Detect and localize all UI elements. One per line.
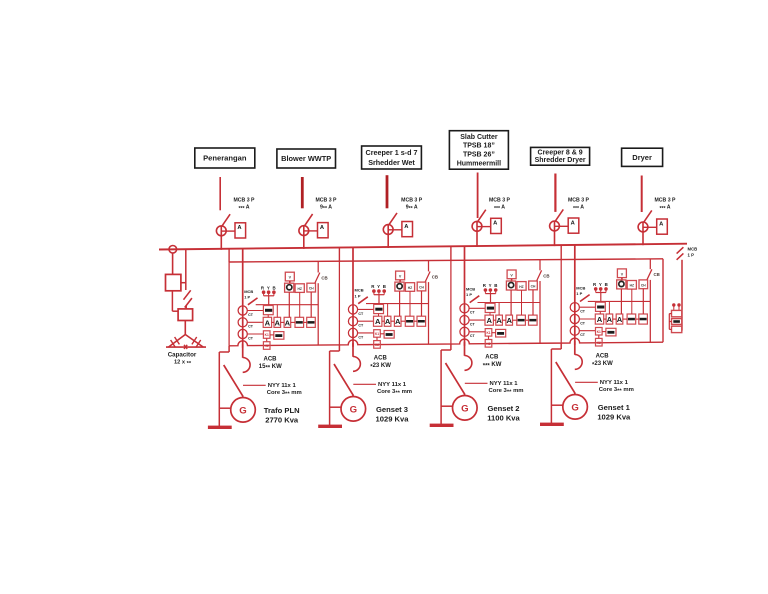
kWh meter (Genset 2 panel) [485, 303, 495, 312]
svg-text:NYY 11x 1: NYY 11x 1 [490, 381, 519, 387]
ammeter A (Dryer) [643, 219, 667, 234]
svg-text:NYY 11x 1: NYY 11x 1 [268, 383, 297, 389]
ACB rating label (Trafo PLN) [259, 356, 282, 371]
main busbar [159, 244, 687, 250]
generator G (Genset 2) [453, 370, 478, 420]
svg-text:15**​ KW: 15**​ KW [259, 364, 282, 372]
wire: metering rail (Trafo PLN panel) [256, 304, 319, 306]
breaker MCB 3P (Slab Cutter / TPSB / Hummeermill) [472, 210, 486, 232]
svg-text:CB: CB [654, 272, 660, 277]
wire: earth line to generator (Genset 3) [330, 406, 342, 408]
breaker MCB 3P (Dryer) [638, 210, 652, 232]
ammeter A (Penerangan) [221, 223, 245, 238]
kWh meter (Genset 1 panel) [596, 302, 606, 311]
wire: left earth branch (Genset 1) [551, 343, 561, 423]
svg-text:MCB: MCB [244, 289, 253, 294]
metering panel Trafo PLN: right edge with CB gap [317, 261, 319, 345]
svg-text:MCB: MCB [576, 286, 585, 291]
meter with bar (row3, Genset 1 panel) [602, 328, 616, 336]
MCB 3P rating label (Creeper 1 s-d 7 / Srhedder Wet) [401, 198, 423, 213]
svg-text:CH: CH [641, 283, 646, 287]
wire: rail drop to ammeter 2 (Genset 1 panel) [608, 301, 610, 314]
svg-text:***​ KW: ***​ KW [483, 362, 502, 370]
svg-text:G: G [461, 403, 468, 414]
svg-text:MCB 3 P: MCB 3 P [315, 198, 337, 204]
meter H2 (Genset 2 panel) [517, 282, 526, 291]
svg-text:***​ A: ***​ A [238, 205, 249, 213]
MCB 3P rating label (Blower WWTP) [315, 198, 337, 213]
svg-text:HZ: HZ [297, 287, 301, 291]
svg-text:K1: K1 [597, 330, 601, 334]
breaker MCB 3P (Blower WWTP) [299, 214, 313, 236]
generator G (Genset 1) [563, 369, 588, 419]
CT1 current transformer (Genset 3 panel) [348, 305, 364, 316]
svg-text:Blower WWTP: Blower WWTP [281, 154, 331, 163]
svg-text:A: A [496, 316, 502, 325]
svg-text:CB: CB [432, 274, 438, 279]
svg-text:V: V [289, 276, 292, 280]
svg-text:Creeper 8 & 9: Creeper 8 & 9 [538, 149, 583, 156]
breaker CB (Genset 3 panel) [425, 272, 438, 283]
wire: feeder drop from Creeper 8 & 9 / Shredder Dryer box [554, 174, 556, 212]
metering panel Genset 2: left edge [450, 260, 452, 344]
ammeter A (Creeper 1 s-d 7 / Srhedder Wet) [388, 222, 412, 237]
MCB 3P rating label (Slab Cutter / TPSB / Hummeermill) [489, 198, 511, 213]
svg-text:ACB: ACB [596, 353, 610, 359]
CT2 current transformer (Genset 1 panel) [570, 314, 586, 325]
wire: CT3 to relay K1 (Genset 1 panel) [579, 330, 595, 332]
svg-text:CB: CB [543, 273, 549, 278]
svg-text:CH: CH [309, 287, 314, 291]
svg-text:1 P: 1 P [466, 292, 472, 297]
svg-text:A: A [493, 221, 498, 227]
svg-text:MCB: MCB [355, 288, 364, 293]
wire: CT1 to kWh meter (Trafo PLN panel) [247, 310, 263, 312]
wire: panel left edge riser to bus (Genset 3) [338, 248, 340, 262]
svg-text:Penerangan: Penerangan [203, 154, 247, 163]
metering panel Trafo PLN: left edge [228, 262, 230, 346]
wire: Slab Cutter / TPSB / Hummeermill breaker to bus [476, 221, 478, 247]
relay K1 (Genset 1 panel) [596, 328, 603, 336]
svg-text:CB: CB [321, 276, 327, 281]
source name label (Genset 3) [376, 405, 410, 424]
kWh meter (Genset 3 panel) [374, 304, 384, 313]
svg-text:Trafo PLN: Trafo PLN [264, 406, 300, 415]
wire: Creeper 8 & 9 / Shredder Dryer breaker to bus [554, 221, 556, 247]
wire: left earth branch (Genset 2) [441, 344, 451, 424]
svg-text:K1: K1 [265, 333, 269, 337]
wire: panel left edge riser to bus (Genset 1) [560, 245, 562, 259]
wire: panel left edge riser to bus (Genset 2) [450, 246, 452, 260]
load label box: Penerangan [195, 148, 255, 168]
ammeter A (Creeper 8 & 9 / Shredder Dryer) [555, 218, 579, 233]
svg-text:A: A [385, 317, 391, 326]
svg-text:*​23 KW: *​23 KW [370, 363, 391, 371]
ACB rating label (Genset 3) [370, 355, 391, 370]
wire: bus node down to contactor [172, 253, 174, 274]
wire: CT3 to relay K1 (Genset 2 panel) [469, 331, 485, 333]
CT3 current transformer (Genset 1 panel) [570, 326, 586, 337]
svg-text:A: A [375, 317, 381, 326]
svg-text:CH: CH [419, 286, 424, 290]
wire: rail drop to ammeter 2 (Trafo PLN panel) [276, 305, 278, 318]
meter CH (Genset 3 panel) [417, 282, 426, 291]
svg-text:R Y B: R Y B [483, 283, 499, 288]
svg-text:A: A [395, 317, 401, 326]
wire: Dryer breaker to bus [642, 222, 644, 246]
svg-text:Slab Cutter: Slab Cutter [460, 134, 498, 141]
MCB 1P label (Genset 3 panel) [355, 288, 364, 299]
svg-text:1029 Kva: 1029 Kva [376, 414, 410, 423]
ammeter/meter row (Genset 2 panel) [485, 315, 537, 325]
wire: feeder drop from Penerangan box [219, 177, 221, 210]
voltmeter (Genset 3 panel) [395, 280, 404, 291]
breaker MCB 1P (Genset 2 panel) [470, 296, 480, 303]
wire: feeder drop from Dryer box [641, 176, 643, 213]
relay K1 (Genset 3 panel) [374, 330, 381, 338]
wire: feeder below panel (Genset 1) [574, 341, 576, 355]
svg-text:Hummeermill: Hummeermill [457, 160, 501, 167]
wire: box to capacitor delta [184, 321, 186, 335]
ground (Genset 3) [318, 425, 342, 428]
svg-text:K2: K2 [375, 343, 379, 347]
svg-text:A: A [237, 225, 242, 231]
kWh meter (Trafo PLN panel) [263, 306, 273, 315]
meter box 3 (right feeder) [672, 326, 682, 332]
relay K2 (Genset 3 panel) [374, 337, 381, 348]
breaker MCB 1P (Genset 1 panel) [580, 295, 590, 302]
voltmeter selector V (Trafo PLN panel) [285, 272, 294, 281]
wire: feeder riser bus to panel (Genset 1) [574, 245, 576, 260]
breaker CB (Genset 2 panel) [536, 270, 549, 281]
wire: voltmeter column (Genset 2 panel) [510, 290, 512, 315]
svg-text:Capacitor: Capacitor [168, 351, 197, 358]
wire: earth line to generator (Genset 1) [551, 404, 563, 406]
indicator lamps R Y B (Genset 3 panel) [371, 284, 387, 304]
breaker CB (Trafo PLN panel) [315, 273, 328, 284]
ammeter A (Slab Cutter / TPSB / Hummeermill) [477, 218, 501, 233]
svg-text:HZ: HZ [630, 284, 634, 288]
MCB 1P label (right feeder) [688, 247, 698, 258]
wire: contact to generator (Genset 2) [464, 394, 466, 396]
CT1 current transformer (Genset 2 panel) [460, 304, 476, 315]
svg-text:Genset 2: Genset 2 [487, 404, 519, 413]
metering panel Genset 2: right edge with CB gap [539, 260, 541, 344]
svg-text:***​ A: ***​ A [494, 205, 505, 213]
capacitor delta symbol [166, 335, 206, 350]
CT3 current transformer (Trafo PLN panel) [238, 329, 254, 340]
svg-text:1100 Kva: 1100 Kva [487, 413, 520, 422]
wire: kWh meter to ammeter row (Trafo PLN panel) [267, 315, 269, 318]
wire: metering rail (Genset 1 panel) [588, 300, 651, 302]
svg-text:1 P: 1 P [244, 294, 250, 299]
voltmeter (Genset 2 panel) [506, 279, 515, 290]
svg-text:CT: CT [470, 334, 476, 338]
wire: contact to generator (Trafo PLN) [242, 396, 244, 398]
svg-text:A: A [404, 224, 409, 230]
svg-text:ACB: ACB [485, 354, 499, 360]
MCB 1P label (Trafo PLN panel) [244, 289, 253, 300]
CT3 current transformer (Genset 2 panel) [460, 327, 476, 338]
svg-text:K1: K1 [486, 331, 490, 335]
wire: panel left edge riser to bus (Trafo PLN) [228, 249, 230, 262]
wire: CT1 to kWh meter (Genset 1 panel) [579, 306, 595, 308]
ACB blade (Genset 3) [334, 364, 353, 396]
svg-text:R Y B: R Y B [593, 282, 609, 287]
svg-text:1029 Kva: 1029 Kva [597, 412, 631, 421]
source name label (Trafo PLN) [264, 406, 300, 425]
voltmeter selector V (Genset 3 panel) [396, 271, 405, 280]
wire: CH column (Genset 2 panel) [532, 290, 534, 315]
wire: feeder through panel (Genset 1) [574, 259, 576, 345]
ACB drawout contact (Genset 2) [465, 356, 472, 371]
svg-text:K2: K2 [486, 342, 490, 346]
svg-text:1 P: 1 P [688, 252, 695, 257]
wire: CT3 to relay K1 (Trafo PLN panel) [247, 333, 263, 335]
voltmeter (Genset 1 panel) [617, 278, 626, 289]
wire: rail drop to ammeter 2 (Genset 2 panel) [498, 303, 500, 316]
ACB rating label (Genset 2) [483, 354, 502, 369]
wire: feeder riser bus to panel (Genset 3) [352, 247, 354, 261]
wire: contactor bottom to capacitor bank [172, 291, 178, 311]
svg-text:Core 3**​ mm: Core 3**​ mm [267, 390, 302, 398]
cable label NYY (Genset 1) [575, 380, 634, 395]
contactor box (capacitor feeder) [166, 274, 181, 290]
svg-text:R Y B: R Y B [261, 285, 277, 290]
wire: voltmeter column (Genset 3 panel) [399, 291, 401, 316]
capacitor label [168, 351, 197, 367]
load label box: Dryer [622, 148, 663, 166]
svg-text:CT: CT [580, 333, 586, 337]
wire: right feeder drop [681, 260, 683, 331]
wire: earth line to generator (Trafo PLN) [219, 407, 231, 409]
MCB 3P rating label (Penerangan) [233, 198, 255, 213]
svg-text:1 P: 1 P [355, 293, 361, 298]
svg-text:CH: CH [531, 284, 536, 288]
ACB drawout contact (Trafo PLN) [243, 358, 250, 373]
wire: feeder riser bus to panel (Genset 2) [464, 246, 466, 260]
svg-text:A: A [486, 316, 492, 325]
svg-text:CT: CT [248, 325, 254, 329]
relay K2 (Genset 2 panel) [485, 336, 492, 347]
wire: voltmeter column (Genset 1 panel) [620, 289, 622, 314]
CT3 current transformer (Genset 3 panel) [348, 328, 364, 339]
svg-text:A: A [285, 318, 291, 327]
wire: Blower WWTP breaker to bus [303, 225, 305, 249]
breaker MCB 1P (Trafo PLN panel) [248, 298, 258, 305]
svg-text:CT: CT [470, 323, 476, 327]
wire: CH column (Trafo PLN panel) [310, 292, 312, 317]
meter with bar (row3, Trafo PLN panel) [270, 332, 284, 340]
meter with bar (row3, Genset 2 panel) [492, 329, 506, 337]
wire: H2 column (Genset 3 panel) [409, 291, 411, 316]
relay K2 (Genset 1 panel) [596, 335, 603, 346]
meter CH (Genset 1 panel) [639, 280, 648, 289]
switchboard enclosure top line [229, 259, 663, 262]
wire: H2 column (Genset 1 panel) [631, 289, 633, 314]
svg-text:HZ: HZ [408, 286, 412, 290]
wire: CT2 to ammeter row (Genset 3 panel) [358, 320, 374, 322]
meter CH (Trafo PLN panel) [307, 283, 316, 292]
CT1 current transformer (Trafo PLN panel) [238, 306, 254, 317]
metering panel Genset 3: left edge [338, 261, 340, 345]
voltmeter selector V (Genset 2 panel) [507, 270, 516, 279]
wire: left earth branch (Genset 3) [330, 345, 340, 425]
wire: metering rail (Genset 3 panel) [366, 303, 429, 305]
svg-text:Core 3**​ mm: Core 3**​ mm [377, 389, 412, 397]
svg-text:9**​ A: 9**​ A [320, 205, 332, 213]
svg-text:1 P: 1 P [576, 291, 582, 296]
svg-text:ACB: ACB [374, 355, 388, 361]
cable label NYY (Genset 2) [465, 381, 524, 396]
wire: CT3 to relay K1 (Genset 3 panel) [358, 332, 374, 334]
wire: earth line to generator (Genset 2) [441, 405, 453, 407]
source name label (Genset 1) [597, 403, 631, 422]
cable label NYY (Trafo PLN) [243, 383, 302, 398]
generator G (Genset 3) [341, 371, 366, 421]
MCB 3P rating label (Creeper 8 & 9 / Shredder Dryer) [568, 198, 590, 213]
svg-text:ACB: ACB [264, 356, 278, 362]
ACB blade (Genset 2) [446, 363, 465, 395]
metering panel Genset 3: right edge with CB gap [428, 261, 430, 345]
svg-text:K2: K2 [597, 341, 601, 345]
breaker MCB 3P (Creeper 1 s-d 7 / Srhedder Wet) [383, 213, 397, 235]
wire: H2 column (Genset 2 panel) [521, 290, 523, 315]
svg-text:A: A [571, 220, 576, 226]
MCB 1P label (Genset 1 panel) [576, 286, 585, 297]
CT2 current transformer (Genset 2 panel) [460, 316, 476, 327]
svg-text:CT: CT [358, 324, 364, 328]
wire: Penerangan breaker to bus [220, 225, 222, 250]
ground (Genset 1) [540, 423, 564, 426]
svg-text:2770 Kva: 2770 Kva [265, 415, 299, 424]
wire: feeder drop from Slab Cutter / TPSB / Hummeermill box [477, 173, 479, 219]
generator G (Trafo PLN) [231, 372, 256, 422]
breaker MCB 3P (Penerangan) [216, 214, 230, 236]
breaker MCB 1P (Genset 3 panel) [358, 297, 368, 304]
svg-text:Creeper 1 s-d 7: Creeper 1 s-d 7 [366, 148, 418, 157]
svg-text:CT: CT [248, 313, 254, 317]
svg-text:HZ: HZ [519, 285, 523, 289]
load label box: Creeper 8 & 9 / Shredder Dryer [531, 147, 590, 165]
breaker MCB 1P (right feeder, double break) [677, 247, 684, 260]
svg-text:MCB 3 P: MCB 3 P [654, 198, 676, 204]
meter H2 (Genset 3 panel) [405, 283, 414, 292]
svg-text:V: V [399, 275, 402, 279]
svg-text:A: A [597, 315, 603, 324]
svg-text:G: G [350, 404, 357, 415]
ammeter/meter row (Trafo PLN panel) [263, 317, 315, 327]
svg-text:Srhedder Wet: Srhedder Wet [368, 158, 415, 167]
wire: feeder drop from Creeper 1 s-d 7 / Srhedder Wet box [386, 175, 389, 208]
wire: CT1 to kWh meter (Genset 3 panel) [358, 308, 374, 310]
svg-text:Dryer: Dryer [632, 153, 652, 162]
ACB drawout contact (Genset 1) [575, 355, 582, 370]
svg-text:NYY 11x 1: NYY 11x 1 [378, 382, 407, 388]
wire: feeder through panel (Genset 2) [464, 260, 466, 346]
wire: kWh meter to ammeter row (Genset 3 panel) [378, 314, 380, 317]
voltmeter selector V (Genset 1 panel) [617, 269, 626, 278]
wire: CH column (Genset 3 panel) [421, 291, 423, 316]
svg-text:G: G [571, 402, 578, 413]
wire: CT2 to ammeter row (Genset 1 panel) [579, 318, 595, 320]
svg-text:MCB: MCB [688, 247, 698, 252]
wire: CT1 to kWh meter (Genset 2 panel) [469, 307, 485, 309]
svg-text:Core 3**​ mm: Core 3**​ mm [599, 387, 634, 395]
svg-text:A: A [506, 316, 512, 325]
svg-text:MCB 3 P: MCB 3 P [233, 198, 255, 204]
svg-text:V: V [510, 274, 513, 278]
meter box 2 with bar (right feeder) [672, 319, 682, 325]
wire: kWh meter to ammeter row (Genset 1 panel) [599, 311, 601, 314]
wire: feeder below panel (Genset 3) [352, 343, 354, 357]
svg-text:V: V [621, 272, 624, 276]
wire: contact to generator (Genset 3) [352, 395, 354, 397]
node: bus left end [169, 246, 177, 254]
wire: feeder below panel (Trafo PLN) [242, 344, 244, 358]
wire: feeder through panel (Genset 3) [352, 261, 354, 347]
CT1 current transformer (Genset 1 panel) [570, 303, 586, 314]
ACB drawout contact (Genset 3) [353, 357, 360, 372]
ACB rating label (Genset 1) [592, 353, 613, 368]
switchboard enclosure right edge [662, 259, 664, 342]
breaker CB (Genset 1 panel) [647, 269, 660, 280]
svg-text:G: G [239, 405, 246, 416]
svg-text:TPSB 18”: TPSB 18” [463, 143, 495, 150]
load label box: Blower WWTP [277, 149, 336, 168]
meter with bar (row3, Genset 3 panel) [380, 331, 394, 339]
wire: left earth branch (Trafo PLN) [219, 346, 229, 426]
meter H2 (Genset 1 panel) [627, 281, 636, 290]
wire: feeder riser bus to panel (Trafo PLN) [242, 249, 244, 262]
meter CH (Genset 2 panel) [529, 281, 538, 290]
ACB blade (Genset 1) [556, 362, 575, 394]
wire: feeder through panel (Trafo PLN) [242, 262, 244, 348]
svg-text:A: A [617, 315, 623, 324]
svg-text:9**​ A: 9**​ A [406, 205, 418, 213]
wire: contact to generator (Genset 1) [574, 393, 576, 395]
svg-text:CT: CT [580, 310, 586, 314]
CT2 current transformer (Genset 3 panel) [348, 317, 364, 328]
wire: CH column (Genset 1 panel) [642, 289, 644, 314]
wire: feeder below panel (Genset 2) [464, 342, 466, 356]
svg-text:CT: CT [580, 321, 586, 325]
ground (Genset 2) [430, 424, 454, 427]
svg-text:Genset 3: Genset 3 [376, 405, 408, 414]
svg-text:MCB 3 P: MCB 3 P [489, 198, 511, 204]
source name label (Genset 2) [487, 404, 520, 423]
wire: Creeper 1 s-d 7 / Srhedder Wet breaker to bus [387, 224, 389, 248]
relay K1 (Trafo PLN panel) [263, 331, 270, 339]
MCB 1P label (Genset 2 panel) [466, 287, 475, 298]
metering panel Genset 1: left edge [560, 260, 562, 344]
svg-text:NYY 11x 1: NYY 11x 1 [600, 380, 629, 386]
ACB blade (Trafo PLN) [224, 365, 243, 397]
svg-text:MCB 3 P: MCB 3 P [401, 198, 423, 204]
indicator lamps R Y B (Genset 2 panel) [483, 283, 499, 303]
svg-text:CT: CT [358, 312, 364, 316]
metering panel Genset 1: right edge with CB gap [649, 259, 651, 342]
svg-text:CT: CT [248, 336, 254, 340]
ammeter/meter row (Genset 1 panel) [595, 314, 647, 324]
ammeter/meter row (Genset 3 panel) [374, 316, 426, 326]
switchboard enclosure bottom line (with wire hops) [229, 338, 663, 346]
wire: kWh meter to ammeter row (Genset 2 panel) [489, 313, 491, 316]
svg-text:TPSB 26”: TPSB 26” [463, 152, 495, 159]
svg-text:Shredder Dryer: Shredder Dryer [535, 157, 586, 164]
svg-text:***​ A: ***​ A [659, 205, 670, 213]
wire: CT2 to ammeter row (Trafo PLN panel) [247, 321, 263, 323]
